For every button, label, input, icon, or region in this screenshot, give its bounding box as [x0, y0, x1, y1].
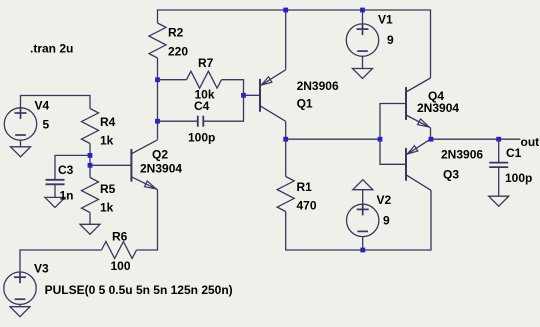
svg-text:5: 5: [43, 117, 50, 131]
wire Q4/Q3 base tie: [380, 104, 406, 165]
ground above V2: [353, 180, 373, 190]
capacitor C4: [158, 120, 198, 122]
transistor Q2: [130, 149, 132, 182]
ground under R5: [80, 224, 100, 234]
ground under V3: [10, 307, 30, 317]
svg-text:V2: V2: [377, 193, 392, 207]
resistor R6: [102, 242, 137, 259]
resistor R7: [158, 79, 187, 81]
voltage source V3: [4, 272, 36, 304]
svg-text:R7: R7: [198, 56, 214, 70]
svg-text:.tran 2u: .tran 2u: [30, 42, 73, 56]
resistor R1: [285, 139, 287, 176]
transistor Q4: [405, 87, 407, 120]
svg-text:R6: R6: [112, 230, 128, 244]
svg-text:C3: C3: [58, 163, 74, 177]
node V1 top junction: [360, 8, 365, 13]
svg-text:100: 100: [111, 259, 131, 273]
svg-text:PULSE(0 5 0.5u 5n 5n 125n 250n: PULSE(0 5 0.5u 5n 5n 125n 250n): [45, 283, 233, 297]
node C1 junction: [496, 137, 501, 142]
wire V4 to R4 top: [21, 96, 91, 109]
wire Q1 collector down: [285, 121, 287, 139]
svg-text:2N3904: 2N3904: [140, 162, 182, 176]
svg-text:V1: V1: [378, 12, 393, 26]
svg-text:2N3906: 2N3906: [297, 79, 339, 93]
wire Q4 emitter stub: [430, 128, 432, 139]
svg-text:9: 9: [383, 213, 390, 227]
svg-text:R4: R4: [100, 115, 116, 129]
wire bottom rail with Q3 collector rise: [286, 190, 431, 250]
capacitor C1: [498, 139, 500, 162]
ground under C3: [45, 197, 65, 207]
wire Q1 emitter to top rail: [285, 10, 287, 70]
ground under V1: [353, 69, 373, 79]
node V2 bottom junction: [360, 248, 365, 253]
node Q1 base junction: [241, 93, 246, 98]
resistor R5: [82, 178, 99, 213]
svg-text:470: 470: [297, 199, 317, 213]
svg-text:R1: R1: [297, 180, 313, 194]
node C3 tap junction: [88, 153, 93, 158]
svg-text:2N3906: 2N3906: [441, 148, 483, 162]
svg-text:V4: V4: [35, 98, 50, 112]
svg-text:Q2: Q2: [152, 148, 168, 162]
ground under V4: [11, 147, 31, 157]
wire Q1 base: [244, 94, 261, 96]
wire R7 to C4 right hook: [203, 80, 243, 122]
svg-text:Q3: Q3: [443, 167, 459, 181]
svg-text:220: 220: [168, 45, 188, 59]
wire output rail: [431, 138, 520, 140]
svg-text:out: out: [521, 135, 540, 149]
svg-text:Q1: Q1: [297, 96, 313, 110]
svg-text:1n: 1n: [60, 188, 74, 202]
svg-text:R2: R2: [168, 26, 184, 40]
node base tie junction: [378, 137, 383, 142]
wire R6 to V3: [20, 250, 102, 272]
ground under C1: [489, 196, 509, 206]
voltage source V1: [346, 24, 378, 56]
voltage source V2: [347, 204, 379, 236]
svg-text:9: 9: [387, 33, 394, 47]
svg-text:C1: C1: [506, 146, 522, 160]
svg-text:100p: 100p: [505, 171, 532, 185]
voltage source V4: [4, 108, 36, 140]
transistor Q3: [405, 148, 407, 181]
wire top +9V rail with Q4 collector drop: [158, 10, 431, 78]
wire Q2 base: [90, 164, 131, 166]
svg-text:V3: V3: [34, 262, 49, 276]
capacitor C3: [55, 155, 90, 179]
resistor R4: [82, 109, 99, 144]
wire Q2 emitter to R6: [137, 190, 158, 250]
node C4 tap junction: [155, 119, 160, 124]
svg-text:100p: 100p: [188, 131, 215, 145]
wire mid rail: [286, 138, 380, 140]
svg-text:1k: 1k: [100, 133, 114, 147]
node Q1 emitter junction: [283, 8, 288, 13]
wire C4 node down to Q2 collector: [157, 121, 159, 139]
transistor Q1: [259, 79, 261, 112]
wire R2 bottom to C4 node: [157, 80, 159, 122]
svg-text:1k: 1k: [100, 200, 114, 214]
svg-text:2N3904: 2N3904: [417, 101, 459, 115]
node output junction: [429, 137, 434, 142]
node Q1 collector junction: [283, 137, 288, 142]
svg-text:R5: R5: [100, 182, 116, 196]
node R7 tap junction: [155, 77, 160, 82]
svg-text:C4: C4: [194, 99, 210, 113]
resistor R2: [149, 23, 166, 58]
node Q2 base junction: [88, 163, 93, 168]
